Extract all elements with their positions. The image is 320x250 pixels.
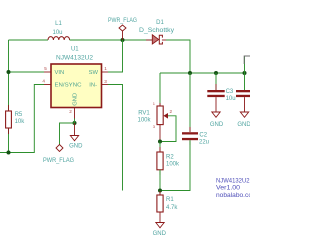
- svg-text:RV1: RV1: [138, 110, 150, 116]
- wire output rail: [160, 72, 245, 74]
- svg-text:EN/SYNC: EN/SYNC: [55, 82, 82, 88]
- pin 5 VIN stub: [44, 71, 51, 73]
- svg-text:L1: L1: [55, 21, 62, 27]
- inductor L1: [48, 21, 70, 40]
- wire left vertical VIN rail: [8, 40, 10, 153]
- svg-text:GND: GND: [210, 122, 224, 128]
- wire top rail left of L1: [9, 39, 49, 41]
- svg-text:GND: GND: [237, 122, 250, 128]
- power flag PWR_FLAG bottom: [43, 145, 74, 165]
- node junction feedback: [158, 189, 162, 193]
- pin 2 GND stub: [74, 108, 76, 119]
- node junction RV1/R2: [158, 140, 162, 144]
- svg-text:NJW4132U2: NJW4132U2: [216, 178, 250, 184]
- diode D1 D_Schottky: [139, 20, 174, 44]
- svg-text:D1: D1: [156, 20, 164, 26]
- svg-text:R1: R1: [166, 197, 174, 203]
- svg-text:C2: C2: [199, 132, 207, 138]
- svg-text:R5: R5: [15, 112, 23, 118]
- node junction C3: [214, 71, 218, 75]
- wire GND pin to flag: [60, 119, 75, 145]
- svg-text:10u: 10u: [52, 30, 62, 36]
- capacitor C4: [236, 73, 253, 112]
- pin 3 IN- stub: [102, 84, 109, 86]
- wire D1 cathode to corner down: [166, 40, 190, 73]
- pin 1 SW stub: [102, 71, 109, 73]
- svg-text:GND: GND: [72, 93, 78, 106]
- svg-text:IN-: IN-: [89, 82, 97, 88]
- node junction diode/output: [188, 71, 192, 75]
- svg-text:C3: C3: [226, 89, 234, 95]
- svg-text:100k: 100k: [166, 162, 180, 168]
- wire L1 to D1 anode: [70, 39, 153, 41]
- node junction VIN: [7, 70, 11, 74]
- node junction GND pin: [73, 121, 77, 125]
- svg-text:2: 2: [69, 109, 72, 114]
- svg-text:1: 1: [104, 66, 107, 71]
- svg-text:NJW4132U2: NJW4132U2: [56, 56, 94, 62]
- svg-text:PWR_FLAG: PWR_FLAG: [43, 158, 74, 164]
- svg-text:VIN: VIN: [55, 70, 65, 76]
- capacitor C3: [207, 73, 235, 112]
- svg-text:Ver1.00: Ver1.00: [216, 186, 241, 192]
- svg-text:U1: U1: [71, 47, 79, 53]
- svg-text:GND: GND: [69, 143, 83, 149]
- wire up to connector: [244, 57, 246, 74]
- title block text: [216, 178, 253, 198]
- svg-text:100k: 100k: [137, 118, 151, 124]
- ground GND under C3: [210, 112, 224, 128]
- wire IN- feedback down: [108, 85, 123, 191]
- IC U1 NJW4132U2: [42, 47, 108, 119]
- resistor R1: [157, 191, 178, 223]
- svg-text:4.7k: 4.7k: [166, 205, 178, 211]
- wire SW to top node: [108, 40, 123, 72]
- resistor R5: [6, 105, 26, 134]
- svg-text:R2: R2: [166, 154, 174, 160]
- ground GND under R1: [153, 223, 167, 237]
- potentiometer RV1: [137, 73, 176, 142]
- svg-text:GND: GND: [153, 231, 167, 237]
- ground GND under U1: [69, 123, 83, 149]
- node junction C4: [243, 71, 247, 75]
- resistor R2: [157, 142, 180, 191]
- node junction SW/PWR_FLAG: [121, 38, 125, 42]
- svg-text:4: 4: [42, 79, 45, 84]
- svg-text:22u: 22u: [199, 140, 209, 146]
- node junction EN/R5: [7, 151, 11, 155]
- svg-text:10k: 10k: [15, 119, 26, 125]
- svg-text:PWR_FLAG: PWR_FLAG: [108, 18, 137, 24]
- svg-text:SW: SW: [89, 70, 99, 76]
- wire EN net bottom: [0, 85, 44, 153]
- svg-text:3: 3: [104, 79, 107, 84]
- svg-text:5: 5: [44, 66, 47, 71]
- gray graphic box corner (cut off): [244, 56, 250, 64]
- power flag PWR_FLAG top: [108, 18, 137, 40]
- capacitor C2: [160, 73, 209, 191]
- svg-text:10u: 10u: [226, 96, 236, 102]
- svg-text:2: 2: [170, 109, 173, 114]
- svg-text:D_Schottky: D_Schottky: [139, 28, 174, 34]
- svg-text:nobalabo.co: nobalabo.co: [216, 193, 250, 199]
- ground GND under C4: [237, 112, 251, 128]
- pin 4 EN/SYNC stub: [44, 84, 51, 86]
- wire VIN to IC: [9, 71, 45, 73]
